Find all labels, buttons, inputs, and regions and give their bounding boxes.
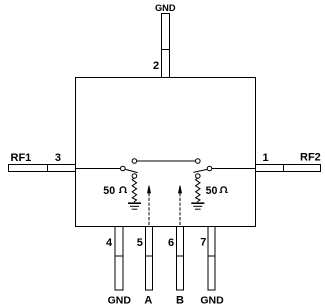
svg-text:4: 4 (106, 237, 113, 249)
svg-text:3: 3 (55, 152, 61, 164)
svg-text:50: 50 (103, 185, 115, 197)
svg-text:1: 1 (262, 152, 268, 164)
svg-text:B: B (176, 295, 184, 307)
svg-text:GND: GND (155, 3, 176, 13)
svg-text:A: A (144, 295, 152, 307)
svg-text:GND: GND (108, 295, 132, 307)
svg-text:7: 7 (200, 237, 206, 249)
svg-text:6: 6 (168, 237, 174, 249)
svg-text:5: 5 (137, 237, 143, 249)
svg-text:50: 50 (206, 185, 218, 197)
svg-text:GND: GND (200, 295, 224, 307)
svg-text:RF2: RF2 (300, 152, 321, 164)
svg-text:RF1: RF1 (11, 152, 32, 164)
svg-text:2: 2 (153, 60, 159, 72)
